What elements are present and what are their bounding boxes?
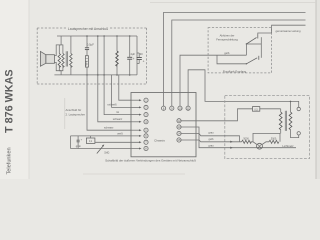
transformer core: [65, 51, 67, 66]
wire arrow 2: [131, 106, 140, 108]
terminal 8: [144, 146, 148, 150]
switch dashed box: [208, 28, 272, 73]
svg-text:4µF: 4µF: [130, 52, 135, 56]
svg-text:0,5µF: 0,5µF: [87, 43, 94, 47]
terminal 10: [178, 106, 182, 110]
wire switch1 out: [258, 33, 272, 35]
wire speaker bottom: [54, 62, 61, 70]
svg-text:rot: rot: [116, 110, 119, 114]
terminal 1: [144, 98, 148, 102]
wire lamp right: [262, 142, 269, 145]
mains transformer primary: [279, 112, 282, 130]
wire S2 feed: [217, 55, 246, 64]
switch S2: [246, 63, 247, 64]
wire row12 to transformer: [181, 109, 252, 121]
wire row15: [181, 140, 242, 142]
terminal 6: [144, 134, 148, 138]
wire arrow 3: [131, 114, 140, 116]
resistor Rv2: [269, 140, 279, 143]
sub box component: [86, 138, 95, 143]
wire vertical tap1: [97, 36, 99, 75]
junction: [97, 35, 99, 37]
resistor Rv1: [242, 140, 252, 143]
output transformer Tr1 primary coil: [58, 54, 60, 68]
terminal 11: [186, 106, 190, 110]
wire coil bottoms: [59, 66, 63, 71]
junction: [86, 35, 88, 37]
svg-text:Schaltbild der äußeren Verbind: Schaltbild der äußeren Verbindungen des …: [105, 158, 196, 162]
wire drop 2: [112, 75, 131, 108]
svg-text:Telefunken: Telefunken: [7, 147, 13, 174]
wire cap top: [86, 36, 88, 48]
svg-text:30: 30: [140, 52, 143, 56]
svg-text:rot/weiß: rot/weiß: [107, 103, 117, 107]
svg-text:5000: 5000: [271, 137, 277, 140]
svg-text:grün: grün: [76, 144, 82, 148]
wire riser D: [188, 70, 299, 107]
wire elko2: [138, 53, 140, 58]
chassis box: [131, 93, 196, 157]
svg-text:schwarz: schwarz: [104, 125, 114, 129]
right edge wire: [136, 36, 138, 75]
svg-text:5000: 5000: [243, 137, 249, 140]
wire coil joint bottom: [60, 71, 62, 75]
wire sub bottom: [71, 148, 141, 150]
mains transformer secondary: [289, 112, 292, 130]
junction: [129, 74, 131, 76]
wire drop 3: [104, 75, 131, 115]
wire riser C: [180, 55, 246, 106]
svg-text:Lautsprecher mit Anschluß: Lautsprecher mit Anschluß: [68, 27, 108, 31]
wire common: [272, 25, 306, 33]
loudspeaker LS: [40, 51, 54, 66]
terminal 12: [177, 119, 181, 123]
wire fuse to transformer: [260, 108, 281, 110]
svg-text:Fernsprechleitung: Fernsprechleitung: [216, 38, 238, 42]
top bus wire: [57, 35, 137, 37]
svg-text:5000: 5000: [86, 60, 88, 66]
wire cap to resistor: [86, 50, 88, 56]
svg-text:weiß: weiß: [117, 131, 123, 135]
wire arrow 1: [131, 99, 140, 101]
resistor R: [85, 56, 88, 67]
wire row14: [181, 134, 239, 142]
svg-text:gelb: gelb: [224, 51, 230, 55]
row15 arrow: [230, 141, 233, 143]
svg-text:1MΩ: 1MΩ: [104, 152, 109, 155]
bottom bus wire: [54, 74, 137, 76]
terminal 15: [177, 138, 181, 142]
loudspeaker dashed box: [37, 28, 146, 84]
wire lamp left: [251, 142, 257, 145]
terminal 8: [162, 106, 166, 110]
wire primary top: [280, 109, 282, 112]
svg-text:2. Lautsprecher: 2. Lautsprecher: [66, 112, 86, 116]
terminal 13: [177, 125, 181, 129]
page bottom faint line: [83, 173, 185, 175]
svg-text:grau: grau: [208, 143, 214, 147]
capacitor 0,5uF: [85, 48, 89, 50]
wire faint: [64, 98, 66, 129]
wire row13: [181, 127, 296, 148]
svg-text:schwarz: schwarz: [113, 117, 123, 121]
wire contact bus: [260, 37, 262, 58]
junction: [86, 74, 88, 76]
wire secondary top: [70, 36, 72, 54]
terminal 9: [170, 106, 174, 110]
wire coil joint top: [60, 36, 62, 45]
wire arrow 5: [131, 129, 140, 131]
switch S1: [246, 43, 261, 45]
output transformer Tr1 secondary coil: [70, 54, 72, 68]
wire elko: [129, 36, 131, 57]
wire coil tops: [59, 45, 63, 54]
electrolytic capacitor 4uF: [127, 57, 132, 59]
wire secondary top: [290, 101, 292, 112]
terminal 3: [144, 113, 148, 117]
page background: [0, 0, 320, 179]
junction: [290, 101, 292, 103]
wire drop 4: [98, 75, 131, 122]
wire riser A: [164, 12, 306, 106]
wire arrow 4: [131, 121, 140, 123]
choke coil Dr: [116, 51, 118, 66]
wire switch1 feed: [245, 44, 247, 55]
svg-text:Lichtnetz: Lichtnetz: [282, 144, 294, 148]
wire resistor bottom: [86, 67, 88, 75]
svg-text:T 876 WKAS: T 876 WKAS: [4, 69, 16, 133]
wire sub left: [70, 136, 72, 149]
terminal b: [297, 132, 300, 135]
fuse Si: [253, 107, 260, 112]
terminal 14: [177, 131, 181, 135]
wire secondary bottom: [70, 66, 72, 75]
svg-text:Rundfunk-Empfang: Rundfunk-Empfang: [223, 69, 247, 73]
svg-text:Abhören der: Abhören der: [220, 34, 235, 38]
potentiometer arrow: [97, 145, 104, 153]
svg-text:gelb: gelb: [209, 137, 214, 141]
junction: [103, 74, 105, 76]
terminal a: [297, 107, 300, 110]
svg-text:gemeinsame Leitung: gemeinsame Leitung: [276, 29, 301, 33]
svg-text:grau: grau: [208, 131, 214, 135]
mains section boundary: [225, 96, 310, 159]
wire vertical tap2: [103, 36, 105, 75]
junction: [103, 35, 105, 37]
electrolytic capacitor 2: [137, 58, 142, 60]
terminal 4: [144, 120, 148, 124]
terminal 2: [144, 105, 148, 109]
junction: [116, 35, 118, 37]
terminal 7: [144, 140, 148, 144]
wire choke top: [116, 36, 118, 51]
wire drop 5: [87, 75, 131, 130]
wire riser B: [172, 20, 306, 106]
wire drop 1: [119, 75, 131, 100]
svg-text:Chassis: Chassis: [154, 139, 165, 143]
junction: [116, 74, 118, 76]
junction: [97, 74, 99, 76]
wire primary bottom: [280, 130, 282, 134]
wire choke bottom: [116, 65, 118, 75]
junction: [129, 35, 131, 37]
wire sub top: [71, 135, 141, 137]
svg-text:+: +: [133, 57, 135, 61]
wire secondary bottom: [291, 130, 299, 138]
row13 arrow: [230, 147, 233, 149]
svg-text:+: +: [143, 60, 145, 64]
pilot lamp La: [257, 143, 263, 149]
lamp bypass bus: [253, 133, 280, 141]
mains transformer core: [284, 111, 286, 131]
terminal 5: [144, 128, 148, 132]
wire sub mid: [95, 141, 140, 143]
sub capacitor: [77, 140, 80, 142]
wire speaker top: [54, 45, 61, 56]
